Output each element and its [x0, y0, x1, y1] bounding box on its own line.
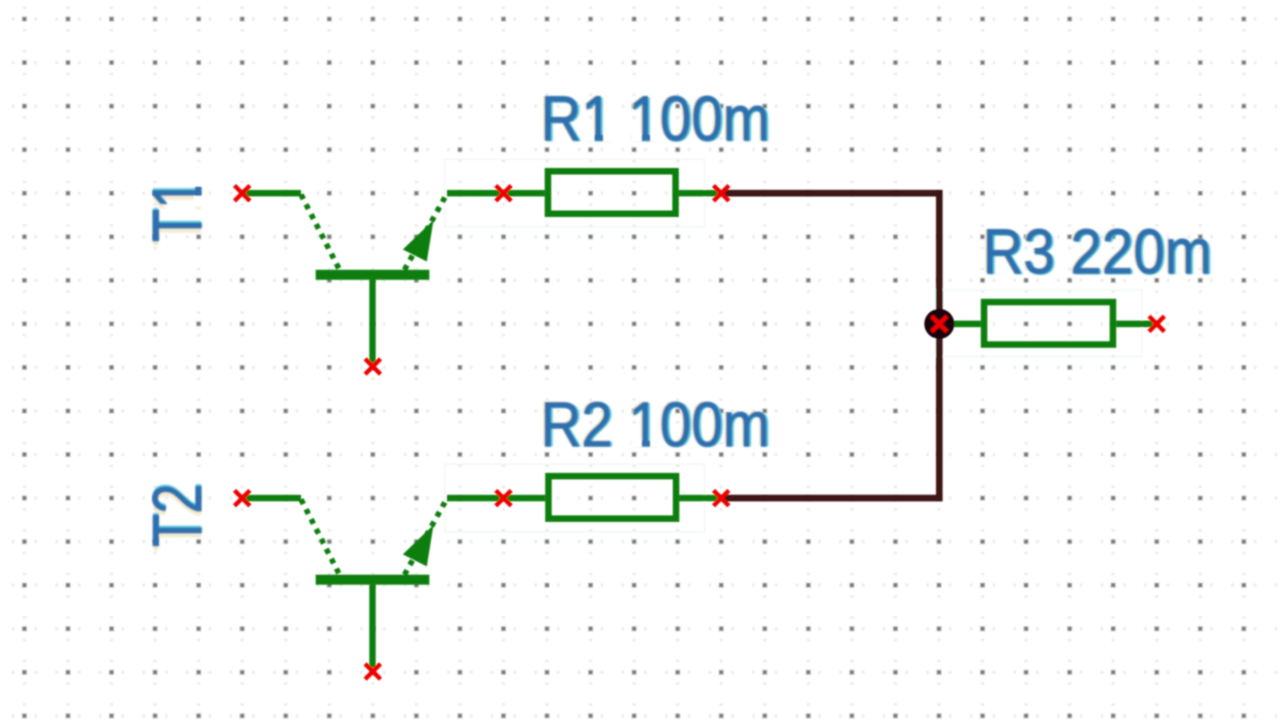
wire net from R1 and R2 to junction (dark) [722, 193, 939, 498]
resistor R2 [548, 476, 676, 519]
svg-text:R2 100m: R2 100m [541, 389, 770, 460]
terminal x junction / R3 pin1 [932, 316, 947, 331]
T1 emitter lead [369, 280, 375, 363]
faint bounding box R3 [935, 290, 1142, 357]
T2 collector diagonal [405, 499, 447, 574]
faint bounding box R2 [445, 464, 705, 532]
terminal x T1 emitter [365, 359, 380, 374]
faint bounding box R1 [445, 159, 705, 227]
label R2 value [539, 388, 773, 460]
label R3 value [980, 216, 1214, 288]
svg-text:T1: T1 [139, 179, 217, 243]
wire T2 base lead [242, 495, 301, 501]
resistor R1 [548, 171, 676, 214]
wire junction to R3 [939, 321, 981, 328]
T1 arrow [403, 220, 434, 262]
wire R1 right lead [679, 190, 722, 196]
label T1 [139, 176, 218, 246]
T2 base diagonal [301, 499, 340, 574]
transistor T2 [301, 499, 447, 668]
serif masks for digit 1 (R2 label) [632, 439, 661, 447]
T1 bar [316, 270, 430, 280]
terminal x R2 pin2 [714, 490, 729, 505]
wire T1 collector to R1 [447, 190, 545, 196]
svg-text:T2: T2 [139, 484, 217, 548]
T2 emitter lead [369, 585, 375, 668]
serif masks for digit 1 (R1 label) [584, 134, 660, 142]
terminal x R1 pin1 [496, 186, 511, 201]
terminal x T2 base [235, 490, 250, 505]
transistor T1 [301, 195, 447, 364]
terminal x R1 pin2 [714, 186, 729, 201]
wire R2 right lead [679, 495, 722, 501]
label T2 [139, 481, 218, 551]
wire T2 collector to R2 [447, 495, 545, 501]
T2 arrow [403, 525, 434, 567]
T2 bar [316, 575, 430, 585]
wire R3 right lead [1116, 321, 1153, 328]
terminal x T2 emitter [365, 664, 380, 679]
terminal x R2 pin1 [496, 490, 511, 505]
junction node [924, 309, 954, 339]
terminal x T1 base [235, 186, 250, 201]
serif mask for digit 1 (T1 label) [194, 176, 204, 207]
T1 base diagonal [301, 195, 340, 270]
wire T1 base lead [242, 190, 301, 196]
terminal x R3 pin2 [1149, 316, 1164, 331]
label R1 value [539, 83, 773, 155]
resistor R3 [984, 302, 1113, 345]
svg-text:R3 220m: R3 220m [983, 216, 1212, 287]
T1 collector diagonal [405, 195, 447, 270]
svg-text:R1 100m: R1 100m [541, 83, 770, 154]
